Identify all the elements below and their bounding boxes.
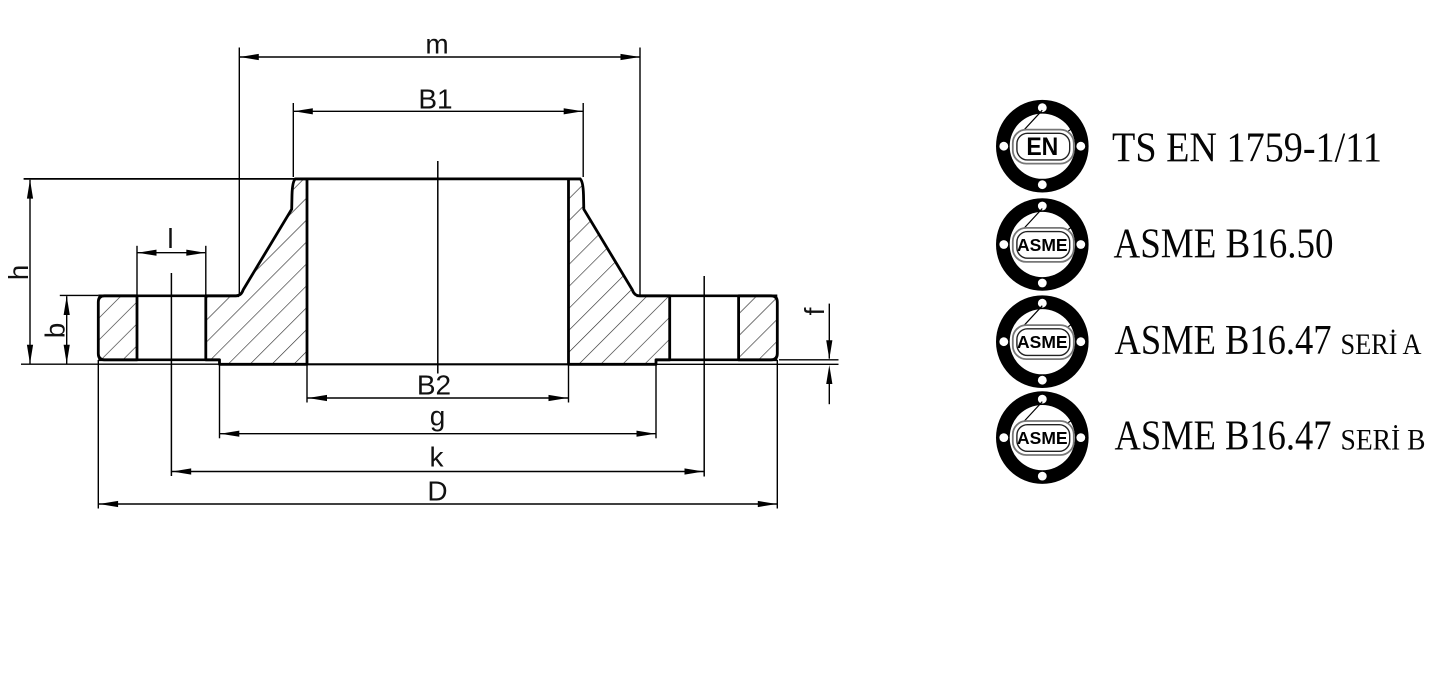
svg-text:B1: B1 bbox=[418, 84, 452, 115]
svg-text:B2: B2 bbox=[417, 370, 451, 401]
svg-text:ASME: ASME bbox=[1017, 235, 1068, 255]
g dimension line bbox=[220, 433, 656, 435]
flange section left outer rim bbox=[98, 296, 137, 360]
svg-text:ASME B16.47: ASME B16.47 bbox=[1115, 318, 1332, 364]
b dimension line bbox=[66, 296, 68, 363]
D dimension line bbox=[99, 503, 777, 505]
flange icon 4 (ASME) bbox=[996, 391, 1089, 484]
b top extension bbox=[60, 294, 99, 296]
raised-face extension right / f lines bbox=[656, 363, 839, 365]
B2 extension lines bbox=[306, 364, 308, 402]
ring top face line right bbox=[637, 294, 778, 297]
centerline bbox=[437, 161, 439, 374]
B1 extension lines bbox=[292, 103, 294, 177]
svg-text:EN: EN bbox=[1026, 133, 1058, 161]
svg-text:TS EN 1759-1/11: TS EN 1759-1/11 bbox=[1112, 126, 1382, 172]
flange icon 3 (ASME) bbox=[996, 295, 1089, 388]
bolt centerline left bbox=[170, 273, 172, 476]
ring bottom line right bbox=[656, 358, 777, 361]
l dimension line bbox=[138, 252, 206, 254]
top weld face line bbox=[24, 178, 295, 180]
D extension lines bbox=[97, 360, 99, 509]
svg-text:b: b bbox=[40, 323, 71, 339]
svg-text:ASME B16.47: ASME B16.47 bbox=[1115, 414, 1332, 460]
svg-text:h: h bbox=[3, 265, 34, 281]
svg-text:ASME B16.50: ASME B16.50 bbox=[1114, 222, 1334, 268]
flange section left hub bbox=[206, 179, 307, 364]
flange section right outer rim bbox=[739, 296, 778, 360]
B1 dimension line bbox=[293, 110, 583, 112]
svg-text:k: k bbox=[430, 442, 445, 473]
bolt centerline right bbox=[703, 276, 705, 477]
svg-text:m: m bbox=[425, 29, 448, 60]
flange section right hub bbox=[569, 179, 670, 364]
ring bottom line left bbox=[98, 358, 219, 361]
ring top face line left bbox=[98, 294, 239, 297]
l extension lines bbox=[136, 246, 138, 295]
svg-text:ASME: ASME bbox=[1017, 332, 1068, 352]
raised face bottom line bbox=[220, 363, 657, 365]
g extension lines bbox=[219, 364, 221, 438]
svg-text:f: f bbox=[799, 307, 830, 315]
h dimension line bbox=[29, 180, 31, 364]
svg-text:ASME: ASME bbox=[1017, 428, 1068, 448]
svg-text:l: l bbox=[167, 223, 173, 254]
svg-text:D: D bbox=[427, 476, 447, 507]
f dimension line upper bbox=[828, 304, 830, 359]
svg-text:SERİ B: SERİ B bbox=[1341, 424, 1426, 457]
k dimension line bbox=[172, 471, 704, 473]
flange icon 1 (EN) bbox=[996, 100, 1089, 193]
m extension lines bbox=[238, 48, 240, 294]
m dimension line bbox=[239, 56, 640, 58]
f dimension line lower bbox=[828, 370, 830, 404]
h/raised-face bottom extension left bbox=[21, 363, 220, 365]
B2 dimension line bbox=[308, 397, 569, 399]
svg-text:g: g bbox=[430, 401, 446, 432]
flange icon 2 (ASME) bbox=[996, 198, 1089, 291]
svg-text:SERİ A: SERİ A bbox=[1341, 328, 1422, 361]
